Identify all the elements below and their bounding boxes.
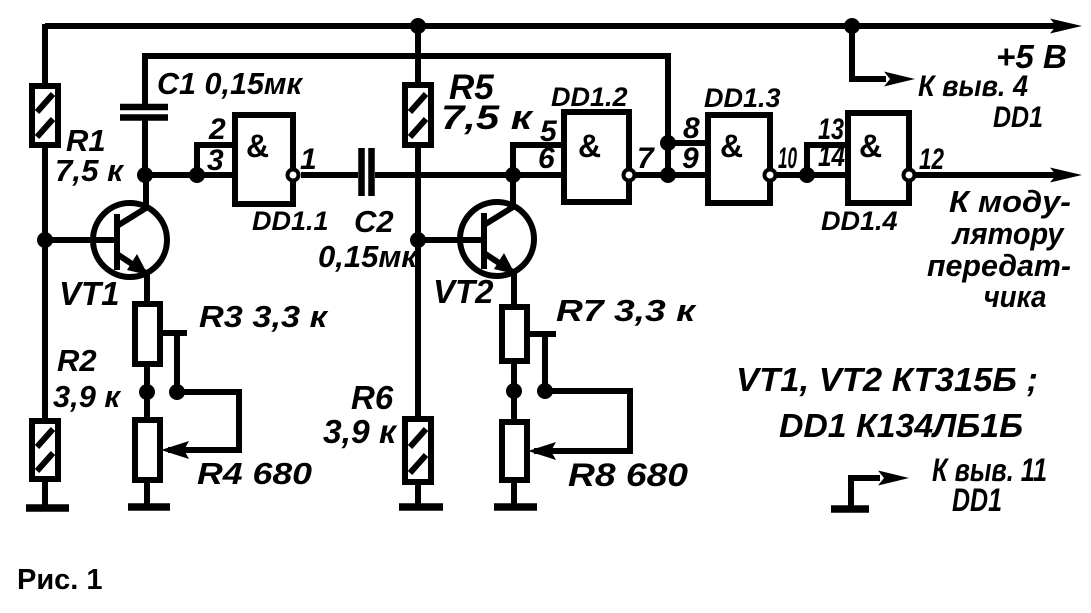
svg-text:DD1.1: DD1.1 bbox=[252, 206, 329, 236]
svg-text:DD1.3: DD1.3 bbox=[704, 83, 781, 113]
svg-text:2: 2 bbox=[208, 113, 226, 146]
svg-text:VT2: VT2 bbox=[433, 273, 494, 310]
svg-text:DD1.4: DD1.4 bbox=[821, 206, 898, 236]
svg-text:VT1: VT1 bbox=[59, 275, 120, 312]
svg-text:VT1, VT2 КТ315Б ;: VT1, VT2 КТ315Б ; bbox=[736, 361, 1038, 398]
svg-text:DD1.2: DD1.2 bbox=[551, 82, 628, 112]
svg-text:R2: R2 bbox=[57, 343, 97, 378]
svg-text:8: 8 bbox=[683, 112, 700, 145]
svg-text:7: 7 bbox=[637, 142, 655, 175]
svg-text:3,9 к: 3,9 к bbox=[323, 413, 398, 450]
svg-text:7,5 к: 7,5 к bbox=[441, 99, 534, 137]
svg-text:&: & bbox=[720, 128, 743, 164]
svg-text:R6: R6 bbox=[351, 379, 394, 416]
svg-text:14: 14 bbox=[818, 140, 845, 173]
svg-text:7,5 к: 7,5 к bbox=[55, 153, 124, 188]
svg-text:C2: C2 bbox=[354, 204, 394, 239]
svg-text:R3 3,3 к: R3 3,3 к bbox=[199, 299, 328, 334]
svg-text:DD1: DD1 bbox=[952, 482, 1002, 518]
svg-text:R4 680: R4 680 bbox=[197, 456, 312, 491]
svg-text:10: 10 bbox=[778, 142, 797, 175]
svg-text:Рис. 1: Рис. 1 bbox=[17, 564, 103, 596]
svg-text:3,9 к: 3,9 к bbox=[53, 379, 121, 414]
svg-text:передат-: передат- bbox=[927, 248, 1071, 283]
svg-text:К выв. 4: К выв. 4 bbox=[918, 70, 1028, 103]
svg-text:DD1 К134ЛБ1Б: DD1 К134ЛБ1Б bbox=[779, 407, 1023, 444]
svg-text:лятору: лятору bbox=[951, 216, 1065, 251]
svg-text:9: 9 bbox=[682, 142, 699, 175]
svg-text:0,15мк: 0,15мк bbox=[318, 239, 418, 274]
svg-text:C1 0,15мк: C1 0,15мк bbox=[157, 66, 303, 101]
svg-text:К моду-: К моду- bbox=[949, 184, 1071, 219]
svg-text:3: 3 bbox=[207, 144, 224, 177]
svg-text:6: 6 bbox=[538, 142, 555, 175]
svg-text:&: & bbox=[578, 128, 601, 164]
svg-text:12: 12 bbox=[919, 143, 944, 176]
svg-text:&: & bbox=[246, 128, 269, 164]
svg-text:R7 3,3 к: R7 3,3 к bbox=[556, 293, 697, 328]
svg-text:R8 680: R8 680 bbox=[568, 457, 688, 493]
svg-text:DD1: DD1 bbox=[993, 101, 1043, 134]
svg-text:чика: чика bbox=[984, 279, 1047, 314]
svg-text:1: 1 bbox=[300, 143, 317, 176]
svg-text:&: & bbox=[859, 128, 882, 164]
